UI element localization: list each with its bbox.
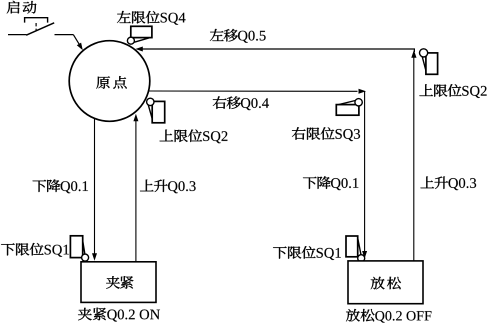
box 夹紧 (clamp) — [81, 262, 156, 303]
label 下限位SQ1 (left) — [1, 243, 69, 257]
wire left terminal of start switch — [8, 34, 27, 36]
limit switch SQ3 (right, 右限位) — [336, 99, 362, 116]
label 上限位SQ2 (mid) — [160, 130, 228, 144]
arrowhead down into 放松 box — [362, 251, 367, 259]
label 放松 — [371, 277, 401, 289]
wire 右移Q0.4 horizontal — [149, 90, 358, 92]
arrowhead into circle (left) — [135, 47, 143, 52]
start pushbutton actuator bracket — [25, 18, 48, 23]
wire 下降Q0.1 right vertical — [364, 91, 366, 251]
arrowhead up at corner — [411, 50, 416, 58]
label 右移Q0.4 — [213, 96, 269, 110]
limit switch SQ4 (top, 左限位) — [127, 26, 152, 44]
label 下降Q0.1 (right) — [303, 176, 358, 190]
label 原点 — [96, 76, 126, 89]
arrowhead right — [359, 89, 367, 94]
label 左限位SQ4 — [117, 11, 185, 25]
box 放松 (release) — [348, 261, 423, 304]
wire 左移Q0.5 horizontal — [142, 49, 414, 52]
limit switch SQ1 (right, 下限位) — [346, 236, 365, 262]
label 上升Q0.3 (right) — [421, 177, 477, 191]
label 夹紧Q0.2 ON — [78, 308, 160, 322]
label 启动 — [7, 1, 37, 14]
start pushbutton plunger (dashed) — [35, 23, 37, 30]
arrowhead down into 夹紧 box — [92, 253, 97, 260]
label 下限位SQ1 (right) — [273, 246, 341, 260]
limit switch SQ2 (mid, 上限位) — [147, 98, 165, 123]
label 下降Q0.1 (left) — [33, 179, 88, 193]
label 夹紧 — [106, 276, 133, 289]
wire from switch to circle with arrow — [55, 34, 74, 36]
label 上限位SQ2 (right) — [419, 84, 486, 98]
label 上升Q0.3 (mid) — [140, 180, 196, 194]
limit switch SQ1 (left, 下限位) — [70, 236, 88, 261]
label 放松Q0.2 OFF — [346, 309, 431, 323]
wire 上升Q0.3 right vertical — [413, 57, 415, 261]
arrowhead up into circle bottom — [133, 114, 138, 122]
label 右限位SQ3 — [292, 127, 360, 141]
wire 下降Q0.1 left vertical — [94, 119, 96, 254]
circle origin node 原点 — [69, 41, 150, 122]
label 左移Q0.5 — [210, 29, 266, 43]
limit switch SQ2 (upper right, 上限位) — [420, 49, 438, 75]
wire 上升Q0.3 left vertical — [135, 120, 137, 262]
start pushbutton SB contact blade — [26, 23, 54, 35]
